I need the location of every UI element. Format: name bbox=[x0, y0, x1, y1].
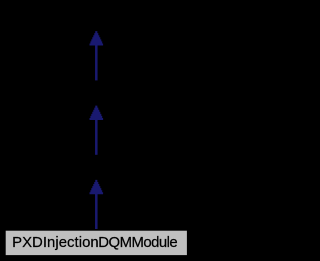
inheritance arrow 2 (between invisible base classes) bbox=[90, 106, 104, 155]
wire shaft 1 bbox=[95, 45, 98, 81]
wire shaft 3 bbox=[95, 193, 98, 229]
svg-text:PXDInjection: PXDInjection bbox=[12, 235, 99, 251]
wire shaft 2 bbox=[95, 119, 98, 155]
node box PXDInjectionDQMModule bbox=[5, 230, 187, 255]
arrowhead 1 bbox=[90, 31, 104, 45]
inheritance arrow 3 (from PXDInjectionDQMModule up) bbox=[90, 180, 104, 229]
inheritance arrow 1 (to invisible top base class) bbox=[90, 31, 104, 80]
arrowhead 2 bbox=[90, 106, 104, 120]
arrowhead 3 bbox=[90, 180, 104, 194]
svg-text:DQMModule: DQMModule bbox=[98, 235, 177, 251]
